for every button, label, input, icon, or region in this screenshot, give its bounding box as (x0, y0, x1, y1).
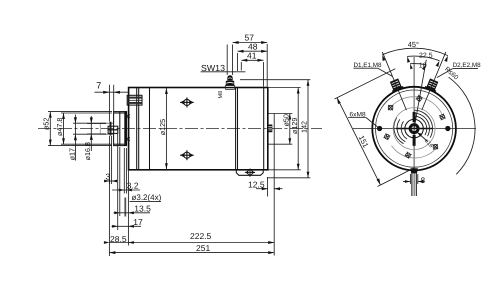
dim 48 (238, 41, 268, 71)
filled dot left (377, 126, 382, 131)
label D2,E2,M8 (437, 62, 481, 77)
svg-text:ø125: ø125 (158, 119, 167, 135)
dim 22.5 arc (407, 53, 439, 67)
gray arc r28.5 lower (392, 146, 438, 158)
dim phi16.8 (83, 116, 106, 160)
svg-text:M8: M8 (218, 91, 224, 99)
keyway mark above center (413, 112, 416, 122)
outer circle (372, 87, 456, 171)
end shield seam double line (136, 88, 138, 170)
svg-text:142: 142 (300, 121, 309, 133)
dim phi50 (right) (269, 114, 293, 145)
mounting foot under end cap (236, 169, 263, 177)
dim 10 arc + radial (410, 60, 427, 129)
svg-text:ø17: ø17 (68, 148, 77, 160)
svg-text:ø3.2(4x): ø3.2(4x) (132, 193, 162, 202)
target mark on foot (248, 170, 253, 175)
svg-text:22.5: 22.5 (419, 53, 433, 60)
thick center hline (396, 128, 432, 130)
center bore (410, 125, 418, 133)
dim 251 (109, 243, 274, 254)
position target mark body upper (180, 97, 194, 107)
gray arc r31 upper (388, 97, 442, 114)
dim 41 (241, 51, 263, 87)
hub right plate (black) (124, 111, 126, 146)
label R<=60 (rotated) + arc (443, 66, 475, 175)
bolt hole 3 (upper right) (438, 112, 447, 121)
bottom terminal lines down (411, 173, 413, 196)
dim 7 (top left) (95, 81, 129, 122)
svg-text:ø16.8: ø16.8 (83, 142, 92, 160)
svg-text:17: 17 (133, 217, 143, 227)
spline blocks (108, 126, 118, 130)
vertical centerline (413, 57, 415, 196)
stator tube left face (149, 88, 151, 170)
dim phi129 (269, 88, 301, 170)
dim 17 (112, 134, 144, 230)
svg-text:41: 41 (247, 51, 257, 61)
terminal stud on top of body (SW13 nut) (225, 75, 235, 90)
svg-text:ø52: ø52 (42, 118, 51, 130)
position target mark body lower (180, 150, 194, 160)
knurl mark X top (126, 115, 129, 118)
dim 13.5 (114, 146, 152, 246)
dim 28.5 / 222.5 (104, 178, 274, 256)
spring arcs r18.4 (394, 110, 433, 144)
dim 3.2 (112, 148, 140, 194)
end-cap inner right line (263, 88, 265, 170)
right end center stud (268, 125, 272, 133)
bolt hole 1 (upper left) (386, 103, 396, 113)
dim 151 (diagonal) (335, 69, 415, 187)
label 6xM8 (348, 112, 378, 128)
svg-text:13.5: 13.5 (134, 204, 151, 214)
dim phi17 (68, 115, 106, 161)
inner rim circle (376, 90, 453, 167)
stud extension line pair (226, 45, 228, 76)
shaft hub assembly (left end) (100, 111, 130, 146)
knurl mark X bottom (126, 138, 129, 141)
dim 12.5 (bottom right) (248, 114, 283, 256)
spring arcs r15.4 (397, 113, 429, 142)
svg-text:D2,E2,M8: D2,E2,M8 (453, 62, 481, 69)
spring arcs r12.4 (401, 116, 426, 139)
thin washer disc (110, 122, 112, 136)
svg-text:28.5: 28.5 (110, 234, 127, 244)
dim phi52 (42, 112, 112, 146)
centerline (side view axis) (38, 128, 322, 130)
svg-text:7: 7 (96, 81, 101, 91)
bolt hole 4 (lower left) (382, 132, 391, 141)
motor body outline (129, 88, 268, 170)
svg-text:251: 251 (196, 243, 210, 253)
shaft end face (99, 123, 101, 135)
bolt hole 5 (bottom) (404, 151, 413, 160)
label D1,E1,M8 (354, 62, 393, 77)
body / end-cap joint double line (235, 88, 237, 170)
svg-text:8: 8 (421, 176, 426, 185)
label phi16 (rotated, small) (418, 133, 434, 150)
stud D1 (top-left 22.5deg) (377, 50, 412, 113)
dim phi125 (158, 88, 168, 169)
flange disc (ø52) (114, 112, 127, 146)
stud D2 (top-right 22.5deg) (416, 50, 451, 113)
svg-text:ø47.8: ø47.8 (55, 118, 64, 136)
dim phi47.8 (55, 113, 112, 144)
bottom terminal (filled) (410, 168, 417, 173)
dim 142 (240, 80, 310, 178)
svg-text:10: 10 (419, 62, 427, 69)
keyway mark below center (413, 135, 416, 146)
filled dot right (445, 126, 450, 131)
light circle r21 (393, 108, 435, 150)
label phi3.2(4x) with leader (125, 193, 161, 216)
dim 3 (104, 136, 117, 184)
horizontal centerline (353, 128, 476, 130)
svg-text:D1,E1,M8: D1,E1,M8 (354, 62, 382, 69)
dim 45deg arc (382, 40, 448, 62)
svg-text:12.5: 12.5 (248, 179, 265, 189)
SW13 label and leader (201, 63, 246, 73)
dim 57 (233, 33, 268, 87)
shaft top/bottom lines (100, 122, 113, 124)
svg-text:45°: 45° (408, 40, 419, 49)
collet circle (405, 119, 423, 137)
bolt hole 2 (top) (415, 94, 423, 102)
bolt hole 6 (lower right) (430, 142, 440, 152)
dim 8 (bottom) (403, 174, 426, 185)
svg-text:ø129: ø129 (290, 118, 299, 134)
threaded bushing at body top-left (127, 95, 142, 105)
svg-text:222.5: 222.5 (190, 231, 212, 241)
